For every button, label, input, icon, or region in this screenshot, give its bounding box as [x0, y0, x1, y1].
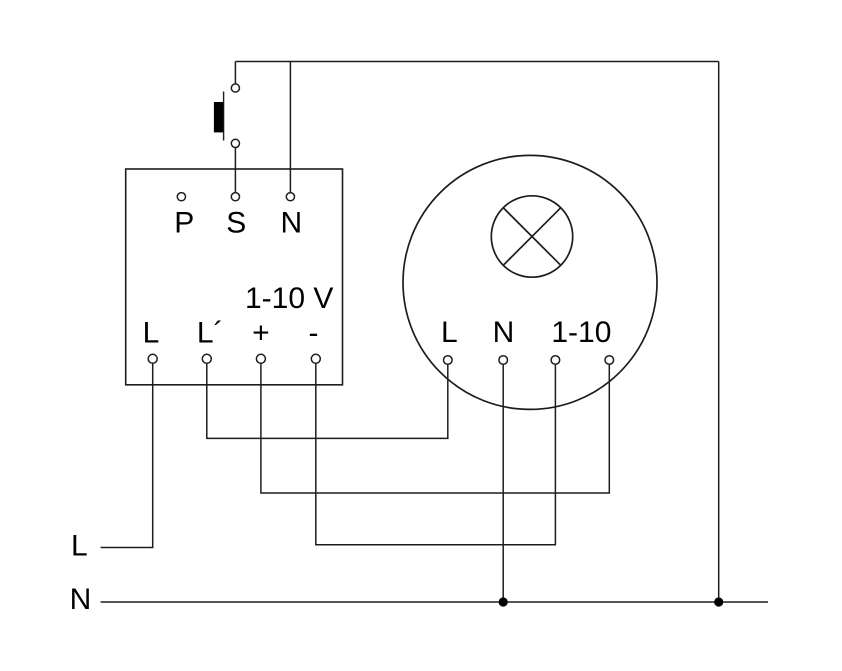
wire: drop from top run to push-button top contact — [234, 62, 236, 84]
svg-text:N: N — [280, 206, 302, 239]
wire: top N run from push-button to right drop — [235, 61, 718, 63]
svg-text:+: + — [252, 317, 270, 350]
svg-text:1-10 V: 1-10 V — [245, 282, 333, 315]
lamp symbol (circle with cross) — [491, 196, 572, 277]
junction: sensor N on bus — [499, 597, 508, 606]
terminal L (box) — [148, 354, 157, 363]
terminal 1-10 right (sensor) — [605, 356, 614, 365]
wire: sensor N terminal drop to N bus — [502, 364, 504, 602]
svg-text:1-10: 1-10 — [551, 316, 611, 349]
terminal + (box) — [256, 354, 265, 363]
terminal - (box) — [311, 354, 320, 363]
wire: box L terminal to supply L stub — [101, 363, 153, 547]
svg-text:-: - — [309, 317, 319, 350]
svg-text:L: L — [441, 316, 458, 349]
terminal L (sensor) — [444, 356, 453, 365]
wire: top N run drop to terminal N — [289, 62, 291, 193]
svg-text:S: S — [226, 206, 246, 239]
wire: right N drop to N bus — [718, 62, 720, 603]
svg-text:N: N — [70, 583, 92, 616]
svg-text:N: N — [493, 316, 515, 349]
junction: right N drop on bus — [714, 597, 723, 606]
wire: N bus — [101, 601, 768, 603]
wire: box L´ terminal to sensor L terminal — [207, 363, 448, 438]
terminal N — [286, 193, 294, 201]
wire: box + terminal to sensor 1-10 right terminal — [261, 363, 609, 493]
wire: box - terminal to sensor 1-10 left terminal — [316, 363, 556, 544]
controller box U1 (switching/dimming unit) — [126, 169, 343, 385]
push-button S1 (momentary switch) — [214, 84, 240, 148]
svg-text:L: L — [71, 530, 88, 563]
terminal N (sensor) — [499, 356, 508, 365]
svg-text:P: P — [174, 206, 194, 239]
sensor/luminaire body E1 (circle) — [403, 155, 657, 409]
svg-text:L: L — [143, 317, 160, 350]
svg-text:L´: L´ — [197, 317, 224, 350]
wire: push-button bottom contact to terminal S — [234, 148, 236, 193]
terminal P — [177, 193, 185, 201]
terminal S — [231, 193, 239, 201]
terminal 1-10 left (sensor) — [551, 356, 560, 365]
terminal L´ (box) — [202, 354, 211, 363]
